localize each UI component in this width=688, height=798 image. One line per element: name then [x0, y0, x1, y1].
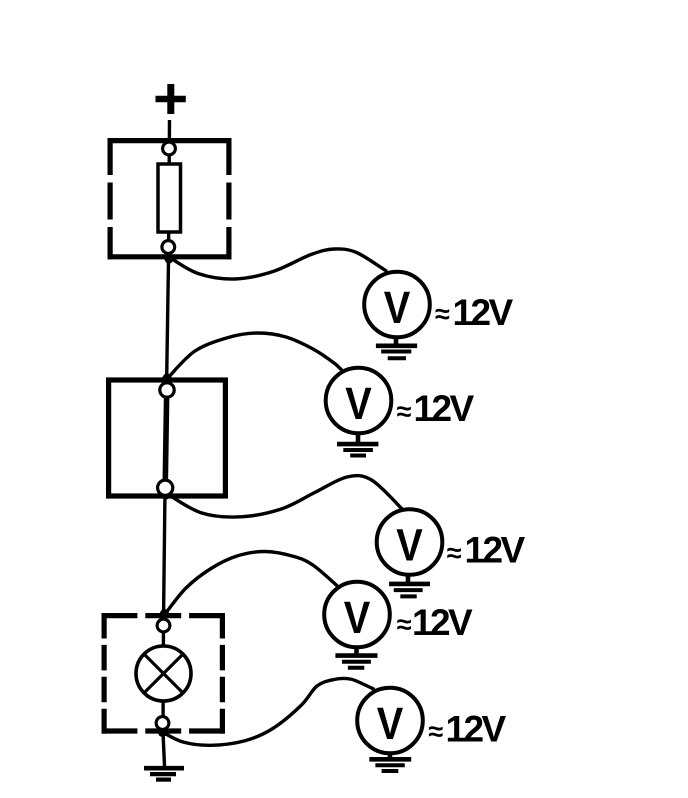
svg-text:V: V	[344, 592, 371, 643]
junction node below lamp box	[158, 728, 167, 737]
ground symbol (main, bottom)	[144, 766, 184, 779]
junction node above battery box	[163, 374, 172, 383]
voltmeter V3	[377, 509, 443, 596]
wire main vertical bus	[163, 120, 170, 766]
lamp (circle with X)	[136, 646, 191, 701]
wire curve to voltmeter V4	[165, 551, 339, 614]
fuse element (rectangle)	[158, 164, 181, 232]
junction node above lamp box	[160, 609, 169, 618]
svg-text:≈: ≈	[435, 299, 450, 329]
fuse terminal circle top	[163, 142, 176, 155]
junction node below fuse box	[165, 255, 174, 264]
positive supply terminal +	[156, 84, 186, 114]
wire thick segment inside battery box	[165, 391, 167, 487]
fuse box (dashed enclosure)	[108, 138, 232, 259]
voltmeter V1	[364, 272, 430, 359]
wire curve to voltmeter V1	[169, 249, 387, 279]
svg-text:≈: ≈	[428, 717, 443, 747]
lamp terminal circle top	[157, 619, 170, 632]
voltmeter V2	[326, 368, 392, 456]
voltmeter V5	[357, 688, 423, 771]
svg-text:12V: 12V	[465, 530, 526, 571]
lamp box (dashed enclosure)	[102, 613, 226, 734]
svg-text:V: V	[377, 698, 404, 749]
battery terminal circle top	[160, 383, 174, 397]
wire curve to voltmeter V3	[166, 476, 403, 517]
battery box (solid enclosure)	[109, 380, 226, 496]
svg-text:≈: ≈	[397, 397, 412, 427]
svg-text:12V: 12V	[414, 388, 475, 429]
fuse terminal circle bottom	[162, 241, 175, 254]
svg-text:12V: 12V	[453, 292, 514, 333]
wire curve to voltmeter V2	[167, 333, 344, 379]
svg-text:12V: 12V	[446, 709, 507, 750]
svg-text:V: V	[396, 520, 423, 571]
battery terminal circle bottom	[158, 480, 173, 495]
svg-text:≈: ≈	[447, 538, 462, 568]
wire curve to voltmeter V5	[163, 678, 375, 745]
junction node below battery box	[162, 491, 171, 500]
voltmeter V4	[324, 582, 390, 668]
svg-text:≈: ≈	[397, 609, 412, 639]
lamp terminal circle bottom	[156, 717, 169, 730]
svg-text:V: V	[384, 282, 411, 333]
svg-text:V: V	[345, 378, 372, 429]
svg-text:12V: 12V	[412, 602, 473, 643]
